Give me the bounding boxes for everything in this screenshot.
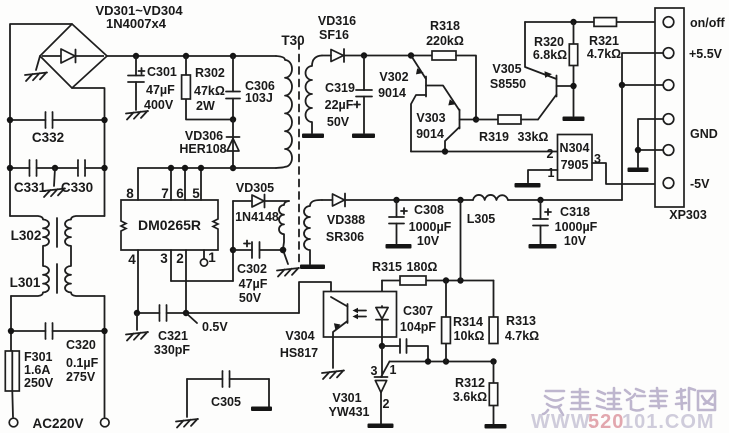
svg-text:R302: R302 <box>195 66 225 80</box>
node C307 right <box>425 358 431 364</box>
transistor V303 <box>445 110 476 152</box>
wire GND pin4 link <box>638 119 663 150</box>
pin 3 (N304) <box>592 152 663 184</box>
node pin2 0.5V <box>183 310 189 316</box>
capacitor C305 <box>223 371 230 387</box>
svg-text:V305: V305 <box>492 62 521 76</box>
svg-text:WWW.: WWW. <box>531 411 596 433</box>
svg-text:4.7kΩ: 4.7kΩ <box>505 329 539 343</box>
svg-text:104pF: 104pF <box>400 320 436 334</box>
svg-text:250V: 250V <box>24 376 54 390</box>
capacitor C321 <box>160 305 167 321</box>
svg-text:R315: R315 <box>372 260 402 274</box>
ground (bridge, chassis) <box>25 56 47 81</box>
diode VD306 <box>227 120 240 169</box>
svg-text:C308: C308 <box>414 203 444 217</box>
svg-text:+5.5V: +5.5V <box>689 47 723 61</box>
pin -5V <box>663 178 674 189</box>
svg-text:0.5V: 0.5V <box>202 320 228 334</box>
node V303 emitter <box>442 148 448 154</box>
node C318 top <box>537 197 543 203</box>
optocoupler V304 <box>324 292 397 369</box>
svg-text:V303: V303 <box>416 111 445 125</box>
fuse F301 <box>5 351 19 417</box>
wire C321 line <box>137 312 299 314</box>
svg-text:C321: C321 <box>158 329 188 343</box>
svg-text:50V: 50V <box>239 291 262 305</box>
svg-text:R313: R313 <box>506 314 536 328</box>
svg-text:520: 520 <box>588 411 624 433</box>
ground (C302, chassis) <box>277 250 299 277</box>
svg-text:-5V: -5V <box>690 177 710 191</box>
wire C331/C330 line <box>10 167 105 169</box>
pin 1 (N304) <box>528 166 558 183</box>
svg-text:GND: GND <box>690 127 718 141</box>
svg-text:C302: C302 <box>237 262 267 276</box>
node C332 left <box>7 117 13 123</box>
ground (V301, bar) <box>368 424 394 429</box>
node VD306 bottom <box>230 165 236 171</box>
svg-text:S8550: S8550 <box>490 77 526 91</box>
node C319 top <box>361 52 367 58</box>
capacitor C306 <box>226 56 240 120</box>
svg-text:400V: 400V <box>144 98 174 112</box>
diode VD388 <box>322 194 397 207</box>
svg-text:AC220V: AC220V <box>32 416 83 431</box>
transformer core (dashed) <box>298 42 300 262</box>
ground (R312, bar) <box>485 424 507 429</box>
svg-text:N304: N304 <box>560 141 590 155</box>
ground (C318, bar) <box>529 244 557 249</box>
svg-text:C301: C301 <box>147 65 177 79</box>
node C302 left <box>230 247 236 253</box>
svg-text:9014: 9014 <box>378 86 406 100</box>
node 0.5V tick <box>186 313 197 323</box>
capacitor C307 <box>382 339 428 362</box>
svg-text:C318: C318 <box>560 205 590 219</box>
wire VD305 anode rail <box>232 201 234 281</box>
capacitor C320 <box>46 323 53 339</box>
pin +5.5V <box>663 48 674 59</box>
svg-text:SF16: SF16 <box>319 28 349 42</box>
bridge rectifier VD301~VD304 <box>40 24 107 88</box>
wire pin3 link <box>622 84 663 86</box>
capacitor C318 <box>533 200 551 244</box>
pin 4 <box>128 250 138 313</box>
node R314 top <box>443 277 449 283</box>
ground (XP303, bar) <box>628 168 649 173</box>
node +5.5V <box>619 82 625 88</box>
svg-text:XP303: XP303 <box>669 208 707 222</box>
resistor R312 <box>489 362 497 425</box>
node C307 left <box>379 343 385 349</box>
wire C320 line <box>11 330 105 332</box>
node R314 bottom <box>443 358 449 364</box>
svg-text:1N4007x4: 1N4007x4 <box>106 16 167 31</box>
node 5V riser bottom <box>457 277 463 283</box>
pin 7 <box>161 165 174 201</box>
resistor R315 <box>382 276 494 306</box>
node R315 riser top <box>457 197 463 203</box>
node C306 top <box>230 53 236 59</box>
capacitor C319 <box>354 56 372 134</box>
wire +5V riser <box>621 85 623 200</box>
svg-text:2: 2 <box>547 147 554 161</box>
pin 2 <box>176 250 186 313</box>
ground (opto emitter, chassis) <box>322 370 344 379</box>
svg-text:T30: T30 <box>281 33 304 48</box>
svg-text:V304: V304 <box>285 329 314 343</box>
pin 4 circle <box>663 114 674 125</box>
transistor V302 <box>411 56 460 152</box>
node C306 bottom <box>230 116 236 122</box>
regulator N304 7905 <box>558 135 593 181</box>
svg-text:330pF: 330pF <box>154 343 190 357</box>
svg-text:220kΩ: 220kΩ <box>426 34 464 48</box>
svg-text:47µF: 47µF <box>239 277 268 291</box>
svg-text:L301: L301 <box>10 275 41 290</box>
wire right rail bottom <box>104 296 106 417</box>
inductor L302 upper choke windings <box>10 216 105 296</box>
ground (secondary 1, bar) <box>302 134 324 139</box>
svg-text:9014: 9014 <box>416 127 444 141</box>
inductor L305 <box>473 195 508 200</box>
wire bridge bottom to right rail <box>72 88 105 216</box>
svg-text:275V: 275V <box>66 370 96 384</box>
svg-text:V302: V302 <box>379 70 408 84</box>
svg-text:180Ω: 180Ω <box>407 260 438 274</box>
svg-text:R320: R320 <box>534 35 564 49</box>
pin 8 <box>126 168 138 201</box>
svg-text:C319: C319 <box>325 81 355 95</box>
wire 0.5V to optocoupler <box>299 282 331 313</box>
wire 5V riser <box>460 200 462 281</box>
ground (pin4, chassis) <box>126 313 148 341</box>
pin 3 circle <box>663 80 674 91</box>
wire V302/V303 emitter line to N304 <box>411 151 558 153</box>
svg-text:0.1µF: 0.1µF <box>66 356 99 370</box>
ground (C301, chassis) <box>126 111 148 120</box>
svg-text:C330: C330 <box>61 180 93 195</box>
svg-text:103J: 103J <box>245 91 273 105</box>
connector XP303 body <box>655 8 684 207</box>
svg-text:SR306: SR306 <box>326 230 364 244</box>
svg-text:C305: C305 <box>211 395 241 409</box>
node filter right <box>101 165 107 171</box>
svg-text:7: 7 <box>161 186 169 201</box>
svg-text:47µF: 47µF <box>146 83 175 97</box>
node V302 emitter <box>408 52 414 58</box>
transformer T30 secondary winding 1 <box>306 56 323 134</box>
svg-text:1000µF: 1000µF <box>555 220 598 234</box>
svg-text:6.8kΩ: 6.8kΩ <box>533 48 567 62</box>
transformer T30 secondary winding 2 <box>304 200 322 264</box>
ground (R320, bar) <box>563 117 585 122</box>
pin 1 <box>200 250 216 266</box>
svg-text:50V: 50V <box>327 115 350 129</box>
wire R313 drop <box>493 281 495 318</box>
svg-text:47kΩ: 47kΩ <box>194 84 225 98</box>
op-amp U DM0265R <box>121 200 218 250</box>
transformer T30 primary winding <box>276 56 292 168</box>
svg-text:33kΩ: 33kΩ <box>518 130 549 144</box>
resistor R320 <box>569 22 577 116</box>
wire left rail bottom <box>10 296 12 351</box>
svg-text:HS817: HS817 <box>280 346 318 360</box>
pin 3 <box>160 250 171 281</box>
wire top-left rail <box>10 24 72 216</box>
terminal AC N <box>101 418 110 427</box>
svg-text:C332: C332 <box>32 130 64 145</box>
svg-text:3.6kΩ: 3.6kΩ <box>453 390 487 404</box>
transistor V305 <box>525 22 574 120</box>
svg-text:YW431: YW431 <box>329 405 370 419</box>
node C332 right <box>101 117 107 123</box>
node filter mid <box>52 165 58 171</box>
svg-text:2W: 2W <box>196 99 215 113</box>
watermark url <box>531 411 715 433</box>
resistor R314 <box>442 281 451 362</box>
node C320 left <box>8 328 14 334</box>
resistor R319 <box>476 115 538 124</box>
resistor R321 <box>594 18 617 27</box>
svg-text:R312: R312 <box>455 376 485 390</box>
svg-text:C307: C307 <box>403 304 433 318</box>
svg-text:5: 5 <box>192 186 200 201</box>
ground (C305 left, chassis) <box>176 379 198 428</box>
node filter left <box>7 165 13 171</box>
svg-text:on/off: on/off <box>690 16 726 30</box>
svg-text:1: 1 <box>548 166 555 180</box>
svg-text:3: 3 <box>371 364 378 378</box>
svg-text:7905: 7905 <box>561 158 589 172</box>
svg-text:4: 4 <box>128 252 136 267</box>
svg-text:1: 1 <box>390 363 397 377</box>
svg-text:VD388: VD388 <box>327 213 365 227</box>
node R319 left <box>473 116 479 122</box>
node C302 right <box>280 247 286 253</box>
node C308 top <box>393 197 399 203</box>
svg-text:DM0265R: DM0265R <box>138 217 201 233</box>
ground (C305 right, bar) <box>251 379 272 411</box>
svg-text:C331: C331 <box>14 180 47 195</box>
node V305 base <box>570 83 576 89</box>
watermark chinese <box>543 388 715 415</box>
wire C305 line <box>187 378 269 380</box>
svg-text:C320: C320 <box>66 338 96 352</box>
ground (filter mid, chassis) <box>43 168 65 197</box>
node C301 top <box>133 53 139 59</box>
pin 6 <box>176 165 188 201</box>
svg-text:2: 2 <box>383 397 390 411</box>
pin on/off <box>663 17 674 28</box>
resistor R313 <box>489 317 498 344</box>
svg-text:10V: 10V <box>564 234 587 248</box>
svg-text:3: 3 <box>160 251 168 266</box>
svg-text:101.COM: 101.COM <box>622 411 715 433</box>
svg-text:6: 6 <box>176 186 184 201</box>
svg-text:1.6A: 1.6A <box>24 363 50 377</box>
pin GND <box>663 145 674 156</box>
svg-text:R318: R318 <box>430 19 460 33</box>
ground (N304 pin1, bar) <box>515 183 541 188</box>
ground (C308, bar) <box>386 244 412 249</box>
transformer T30 aux winding <box>279 201 289 249</box>
svg-text:2: 2 <box>176 251 184 266</box>
capacitor C330 <box>78 160 85 176</box>
resistor R318 <box>432 51 476 120</box>
capacitor C302 <box>233 241 283 259</box>
capacitor C301 <box>128 56 145 110</box>
svg-text:R319: R319 <box>479 130 509 144</box>
svg-text:1000µF: 1000µF <box>409 220 452 234</box>
node R302 top <box>183 53 189 59</box>
svg-text:VD306: VD306 <box>185 129 223 143</box>
diode VD305 <box>233 195 289 208</box>
pin 5 <box>192 165 204 201</box>
wire on/off line <box>525 21 663 23</box>
wire GND pin5 link <box>638 150 663 167</box>
svg-text:L302: L302 <box>11 228 42 243</box>
wire 5V rail <box>397 199 623 201</box>
node aux winding bottom <box>280 247 286 253</box>
svg-text:F301: F301 <box>24 350 53 364</box>
svg-text:1: 1 <box>208 250 216 265</box>
svg-text:R321: R321 <box>589 34 619 48</box>
node C320 right <box>101 328 107 334</box>
svg-text:L305: L305 <box>467 212 496 226</box>
svg-text:22µF: 22µF <box>325 98 354 112</box>
svg-text:8: 8 <box>126 186 134 201</box>
capacitor C332 <box>46 112 53 128</box>
diode VD316 <box>322 49 364 62</box>
svg-text:HER108: HER108 <box>179 142 226 156</box>
svg-text:10V: 10V <box>417 234 440 248</box>
node pin4 C321 <box>134 310 140 316</box>
wire sense line <box>390 361 494 363</box>
svg-text:10kΩ: 10kΩ <box>454 329 485 343</box>
wire main DC rail <box>107 55 276 57</box>
svg-text:4.7kΩ: 4.7kΩ <box>587 47 621 61</box>
node R320 top <box>570 19 576 25</box>
terminal AC L <box>9 418 18 427</box>
wire pin3 feedback line <box>171 280 233 282</box>
wire +5.5V pin link <box>622 53 663 85</box>
svg-text:3: 3 <box>594 152 601 166</box>
capacitor C308 <box>389 200 407 244</box>
wire C332 line <box>10 119 105 121</box>
svg-text:R314: R314 <box>453 315 483 329</box>
ground (secondary 2, bar) <box>300 265 325 270</box>
ground (C319, bar) <box>352 134 375 139</box>
wire IC supply line <box>138 167 276 169</box>
wire 9V line <box>364 55 432 57</box>
shunt regulator V301 YW431 <box>375 346 390 424</box>
svg-text:V301: V301 <box>332 391 361 405</box>
capacitor C331 <box>30 160 37 176</box>
node GND <box>635 147 641 153</box>
svg-text:1N4148: 1N4148 <box>235 210 279 224</box>
resistor R302 <box>182 56 233 120</box>
svg-text:VD316: VD316 <box>318 14 356 28</box>
svg-text:VD305: VD305 <box>236 181 274 195</box>
node R313 bottom <box>490 358 496 364</box>
